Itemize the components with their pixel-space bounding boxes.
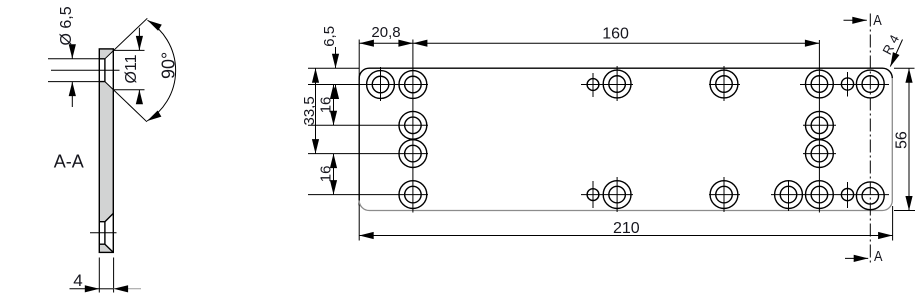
- extension line plate left top: [358, 40, 360, 81]
- column tick small hole2 row1: [847, 72, 849, 97]
- hole row1 col4: [710, 70, 738, 98]
- hole row4 col3: [603, 181, 631, 209]
- hole row4 col5: [775, 181, 803, 209]
- section line A-A (dash-dot): [869, 14, 871, 264]
- dim 4 dimension line middle: [99, 288, 113, 290]
- 90deg arc arrow bottom: [145, 110, 161, 124]
- row2 centerline col6: [803, 124, 836, 126]
- dim D6.5 extension lines: [48, 59, 99, 82]
- hole row4 col2: [399, 181, 427, 209]
- dim D11 dimension line: [138, 28, 140, 104]
- svg-text:Ø 6,5: Ø 6,5: [58, 6, 75, 45]
- hole row1 col6: [806, 70, 834, 98]
- hole row2 col6: [806, 111, 834, 139]
- column tick small hole row1: [592, 73, 594, 97]
- column tick small hole2 row4: [847, 182, 849, 208]
- dim 16 lower arrows: [330, 154, 337, 169]
- column tick col3 row1: [616, 66, 618, 101]
- countersunk hole bottom (white cut): [99, 213, 113, 252]
- dim 56 arrows: [905, 68, 912, 83]
- hole row4 col7: [856, 182, 884, 210]
- dim 16 upper dimension line: [333, 85, 335, 126]
- hole row3 col6: [806, 140, 834, 168]
- top edge extension line left: [308, 67, 359, 69]
- dim 33,5 arrows: [312, 68, 319, 83]
- centerline bottom hole: [90, 232, 117, 234]
- plate body (section) fill: [99, 49, 113, 253]
- dim D11 extension lines: [113, 50, 144, 89]
- countersunk hole top (white cut): [99, 50, 113, 89]
- plate outline gray part (right+bottom): [359, 78, 892, 210]
- top hole countersink diagonal upper (extended as 90deg extension line): [105, 18, 147, 59]
- row4 centerline col4: [709, 194, 740, 196]
- row4 centerline right cluster: [771, 194, 889, 196]
- hole row2 col2: [399, 111, 427, 139]
- dim 56 dimension line: [908, 68, 910, 210]
- row3 centerline left: [308, 153, 428, 155]
- column line col6 (also extension for 160): [818, 40, 820, 213]
- small hole row1: [587, 79, 599, 91]
- svg-text:20,8: 20,8: [371, 24, 400, 41]
- row1 centerline col4: [709, 84, 740, 86]
- row4 centerline middle: [581, 194, 633, 196]
- hole row4 col4: [710, 181, 738, 209]
- dim 33,5 dimension line: [315, 68, 317, 153]
- small hole row4: [587, 189, 599, 201]
- hole row3 col2: [399, 140, 427, 168]
- column line col1: [380, 67, 382, 101]
- svg-text:210: 210: [613, 220, 640, 237]
- svg-text:90°: 90°: [158, 52, 178, 79]
- R4 leader arrow: [887, 52, 899, 68]
- centerline top hole: [51, 69, 120, 71]
- small hole2 row1: [841, 78, 853, 90]
- section arrow bottom: [845, 257, 868, 259]
- dim 4 arrows: [85, 285, 100, 292]
- dim 6,5 arrows: [332, 54, 339, 69]
- svg-text:16: 16: [318, 166, 335, 183]
- 90deg angle arc: [147, 20, 176, 121]
- top hole countersink diagonal lower (extended): [105, 82, 147, 122]
- column tick small hole row4: [592, 181, 594, 208]
- dim 56 extension lines: [894, 68, 915, 210]
- svg-text:4: 4: [73, 271, 82, 290]
- hole row1 col7: [856, 70, 884, 98]
- svg-text:Ø11: Ø11: [123, 54, 140, 83]
- column tick col3 row4: [616, 177, 618, 212]
- column tick col4 row1: [723, 66, 725, 101]
- bottom hole edges: [99, 222, 105, 245]
- top hole edges: [99, 59, 105, 82]
- row4 centerline left: [308, 194, 428, 196]
- row1 centerline left: [308, 84, 428, 86]
- section arrow top: [844, 19, 867, 21]
- svg-text:A-A: A-A: [54, 152, 84, 172]
- dim 210 extension line left (plate edge extended): [358, 205, 360, 241]
- column tick col4 row4: [723, 177, 725, 212]
- dim 16 upper arrows: [330, 85, 337, 100]
- dim D6.5 arrows: [69, 44, 76, 59]
- dim 16 lower dimension line: [333, 154, 335, 195]
- dim 210 extension line right: [892, 206, 894, 241]
- svg-text:160: 160: [602, 26, 629, 43]
- hole row1 col3: [603, 70, 631, 98]
- R4 leader line: [890, 40, 902, 67]
- svg-text:16: 16: [318, 97, 335, 114]
- dim 20,8 arrows: [359, 40, 374, 47]
- row1 centerline middle: [581, 84, 633, 86]
- dim 6,5 dimension line: [335, 47, 337, 97]
- dim 4 extension lines: [99, 258, 113, 293]
- dim 210 dimension line: [359, 235, 892, 237]
- dim 210 arrows: [359, 232, 374, 239]
- svg-text:6,5: 6,5: [321, 26, 338, 47]
- small hole2 row4: [841, 189, 853, 201]
- row2 centerline left: [308, 124, 428, 126]
- row3 centerline col6: [803, 153, 836, 155]
- dim D11 arrows: [136, 36, 143, 51]
- svg-text:A: A: [873, 13, 882, 29]
- 90deg arc arrow top: [146, 17, 162, 31]
- svg-text:A: A: [874, 249, 883, 265]
- plate outline black part (top+left): [359, 68, 892, 205]
- svg-text:56: 56: [894, 131, 911, 149]
- hole row1 col1: [367, 71, 395, 99]
- dim 160 arrows: [413, 40, 428, 47]
- column tick col5 row4: [788, 180, 790, 211]
- dim 4 dimension line right gray tail: [114, 288, 141, 290]
- row1 centerline right cluster: [800, 84, 889, 86]
- hole row1 col2: [399, 71, 427, 99]
- hole row4 col6: [806, 181, 834, 209]
- dim 20,8 / 160 shared dimension line: [359, 42, 819, 44]
- dim 4 dimension line left: [70, 288, 100, 290]
- svg-text:33,5: 33,5: [301, 96, 318, 125]
- column line col2 (also extension for 20,8/160): [412, 40, 414, 213]
- dim D6.5 dimension line: [71, 47, 73, 108]
- bottom hole countersink diagonals: [105, 213, 113, 252]
- plate outline: [99, 49, 113, 253]
